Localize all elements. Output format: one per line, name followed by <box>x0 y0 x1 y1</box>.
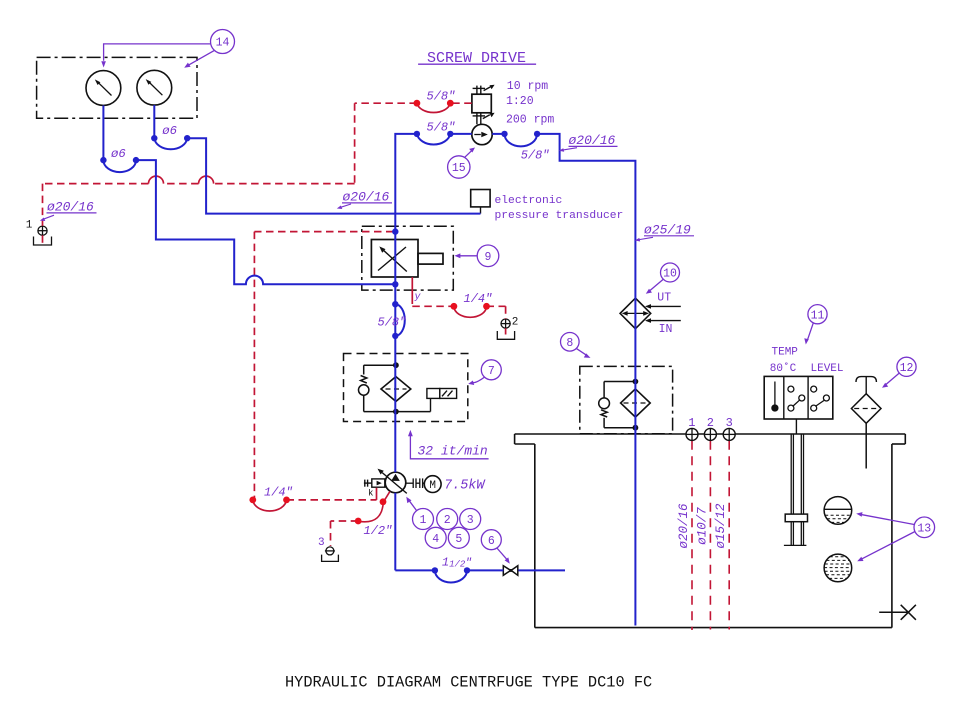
svg-text:LEVEL: LEVEL <box>811 363 844 375</box>
return filter U8 box (dash-dot) <box>580 366 673 433</box>
svg-text:TEMP: TEMP <box>772 347 799 359</box>
tank port 3 <box>723 428 735 440</box>
valve U9 body <box>371 240 443 278</box>
label circle 7 <box>472 360 502 383</box>
svg-text:1/2″: 1/2″ <box>364 524 393 538</box>
svg-text:ø20/16: ø20/16 <box>677 503 691 549</box>
electronic pressure transducer box <box>471 190 490 214</box>
test point 1 symbol <box>34 226 52 245</box>
pump compensator k <box>364 479 385 487</box>
svg-text:ø6: ø6 <box>162 124 177 138</box>
filter unit U7 box (dashed) <box>344 354 468 422</box>
level sight glass B <box>824 554 852 582</box>
gauge G2 <box>137 70 172 105</box>
U11 stem to tank <box>795 419 797 434</box>
hose 5/8 below valve9 <box>395 304 404 336</box>
pilot line: gearbox lube (red dashed) <box>43 103 472 243</box>
heater crossbar <box>785 514 807 522</box>
svg-text:ø15/12: ø15/12 <box>714 503 728 549</box>
electric motor M <box>424 476 441 493</box>
main pressure line vertical <box>395 134 635 626</box>
instrument box U11 (temp/level switches) <box>764 376 833 419</box>
svg-text:14: 14 <box>216 37 230 50</box>
svg-text:10: 10 <box>663 268 677 281</box>
svg-text:UT: UT <box>657 292 671 305</box>
svg-text:pressure transducer: pressure transducer <box>495 210 624 222</box>
pilot line: load sensing to compensator (red dashed) <box>254 232 393 500</box>
hose: 1/4 at valve9 <box>454 306 487 317</box>
cooler water pipes UT/IN <box>645 304 681 323</box>
svg-text:5/8″: 5/8″ <box>427 121 456 135</box>
svg-text:electronic: electronic <box>495 195 563 207</box>
motor flow arrow <box>474 132 488 138</box>
pump flow triangle <box>391 474 400 481</box>
U7 clogging pressure switch <box>427 389 457 412</box>
screw drive gearbox <box>472 94 491 113</box>
svg-text:ø6: ø6 <box>111 147 126 161</box>
svg-text:ø20/16: ø20/16 <box>47 200 94 215</box>
svg-text:2: 2 <box>444 514 451 527</box>
blue hose dots <box>100 131 540 574</box>
red hose dots <box>249 100 489 525</box>
gearbox output shaft (bottom) <box>473 113 495 125</box>
label circle 11 <box>808 305 828 340</box>
compensator riser (red) <box>376 488 378 500</box>
U8 bypass check valve branch <box>599 382 636 428</box>
breather U12 diamond <box>851 394 881 469</box>
svg-text:5: 5 <box>455 533 462 546</box>
label circle 10 <box>649 263 680 292</box>
thermometer in U11 <box>772 382 778 412</box>
label circle 9 <box>457 245 499 267</box>
label circle 15 <box>448 150 473 179</box>
pilot line bridge humps over gauge lines <box>199 176 214 184</box>
suction shut-off valve V6 <box>503 566 518 576</box>
svg-text:8: 8 <box>566 337 573 350</box>
svg-text:y: y <box>414 292 422 303</box>
svg-text:3: 3 <box>726 416 733 430</box>
svg-text:7.5kW: 7.5kW <box>444 479 486 494</box>
label circle 13 <box>860 514 935 559</box>
tank internal pipe lines 1-3 (red dashed) <box>692 441 729 630</box>
main line: gauge G2 drop <box>154 105 480 214</box>
tank port 1 <box>686 428 698 440</box>
svg-text:ø20/16: ø20/16 <box>343 190 390 205</box>
oil tank outline <box>515 434 906 628</box>
U7 bypass check valve branch <box>359 365 431 411</box>
shaft coupling pump-motor <box>406 478 425 488</box>
temp switch contacts <box>788 386 805 411</box>
svg-text:HYDRAULIC DIAGRAM CENTRFUGE TY: HYDRAULIC DIAGRAM CENTRFUGE TYPE DC10 FC <box>285 674 652 692</box>
svg-text:5/8″: 5/8″ <box>427 90 456 104</box>
label circle 6 <box>481 530 507 560</box>
svg-text:ø20/16: ø20/16 <box>569 133 616 148</box>
level switch contacts <box>811 386 830 411</box>
filter U7 diamond <box>381 377 411 402</box>
svg-text:12: 12 <box>900 362 914 375</box>
label circle 12 <box>885 357 916 385</box>
test point 2 symbol <box>497 319 514 339</box>
label circle 8 <box>561 333 588 356</box>
svg-text:1: 1 <box>688 416 695 430</box>
gauge G1 needle <box>95 79 112 95</box>
valve U9 internal arrows <box>378 246 407 271</box>
hose: 1/4 left <box>253 500 287 511</box>
test point 3 symbol <box>322 547 339 562</box>
pressure reducing valve U9 outer box (dash-dot) <box>362 226 454 290</box>
svg-text:7: 7 <box>488 365 495 378</box>
svg-text:3: 3 <box>467 514 474 527</box>
svg-text:15: 15 <box>452 162 466 175</box>
cooler internal arrows <box>622 311 649 316</box>
filter U8 diamond <box>621 389 651 417</box>
suction line bottom <box>395 570 565 582</box>
gauge panel box (dash-dot) <box>37 57 197 118</box>
main line: gauge G1 drop <box>103 105 393 284</box>
svg-text:1/4″: 1/4″ <box>264 486 293 500</box>
tank drain plug X <box>879 605 916 620</box>
tank port 2 <box>704 428 716 440</box>
pump variable arrow <box>378 469 407 494</box>
svg-text:5/8″: 5/8″ <box>521 149 550 163</box>
variable displacement pump P1 <box>385 472 406 493</box>
hydraulic motor U15 <box>472 124 492 144</box>
svg-text:M: M <box>429 480 436 492</box>
svg-text:ø10/7: ø10/7 <box>696 507 710 545</box>
svg-text:1: 1 <box>420 514 427 527</box>
svg-text:32 it/min: 32 it/min <box>418 444 488 459</box>
svg-text:6: 6 <box>488 535 495 548</box>
pilot line: valve9 y-drain (red) <box>411 277 413 296</box>
svg-text:IN: IN <box>659 323 673 336</box>
svg-text:3: 3 <box>318 537 325 549</box>
gearbox input shaft (top) <box>473 85 495 95</box>
label circles 1-5 <box>409 501 480 549</box>
svg-text:80˚C: 80˚C <box>770 362 797 375</box>
heater bottom tick <box>784 544 807 546</box>
svg-text:1: 1 <box>26 220 33 232</box>
heater rods in tank <box>791 434 803 545</box>
air breather U12 cap <box>856 377 876 394</box>
svg-text:2: 2 <box>707 416 714 430</box>
oil cooler U10 diamond <box>620 298 651 329</box>
svg-text:2: 2 <box>512 316 519 328</box>
svg-text:5/8″: 5/8″ <box>378 315 407 329</box>
svg-text:10 rpm: 10 rpm <box>507 80 549 93</box>
svg-text:4: 4 <box>432 533 439 546</box>
gauge G2 needle <box>146 79 163 95</box>
svg-text:9: 9 <box>485 251 492 264</box>
U7 junction dots <box>393 362 399 368</box>
svg-text:1:20: 1:20 <box>506 95 534 108</box>
svg-text:11: 11 <box>811 309 825 322</box>
svg-text:k: k <box>368 488 373 498</box>
U8 junction dots <box>633 379 639 385</box>
svg-text:13: 13 <box>917 522 931 535</box>
hose: gearbox lube 5/8 <box>417 103 450 112</box>
svg-text:200 rpm: 200 rpm <box>506 114 554 127</box>
level sight glass A <box>824 497 852 525</box>
pump case drain (red) <box>358 491 390 521</box>
svg-text:1/4″: 1/4″ <box>464 292 493 306</box>
gauge G1 <box>86 71 121 106</box>
label circle 14 <box>104 30 235 67</box>
